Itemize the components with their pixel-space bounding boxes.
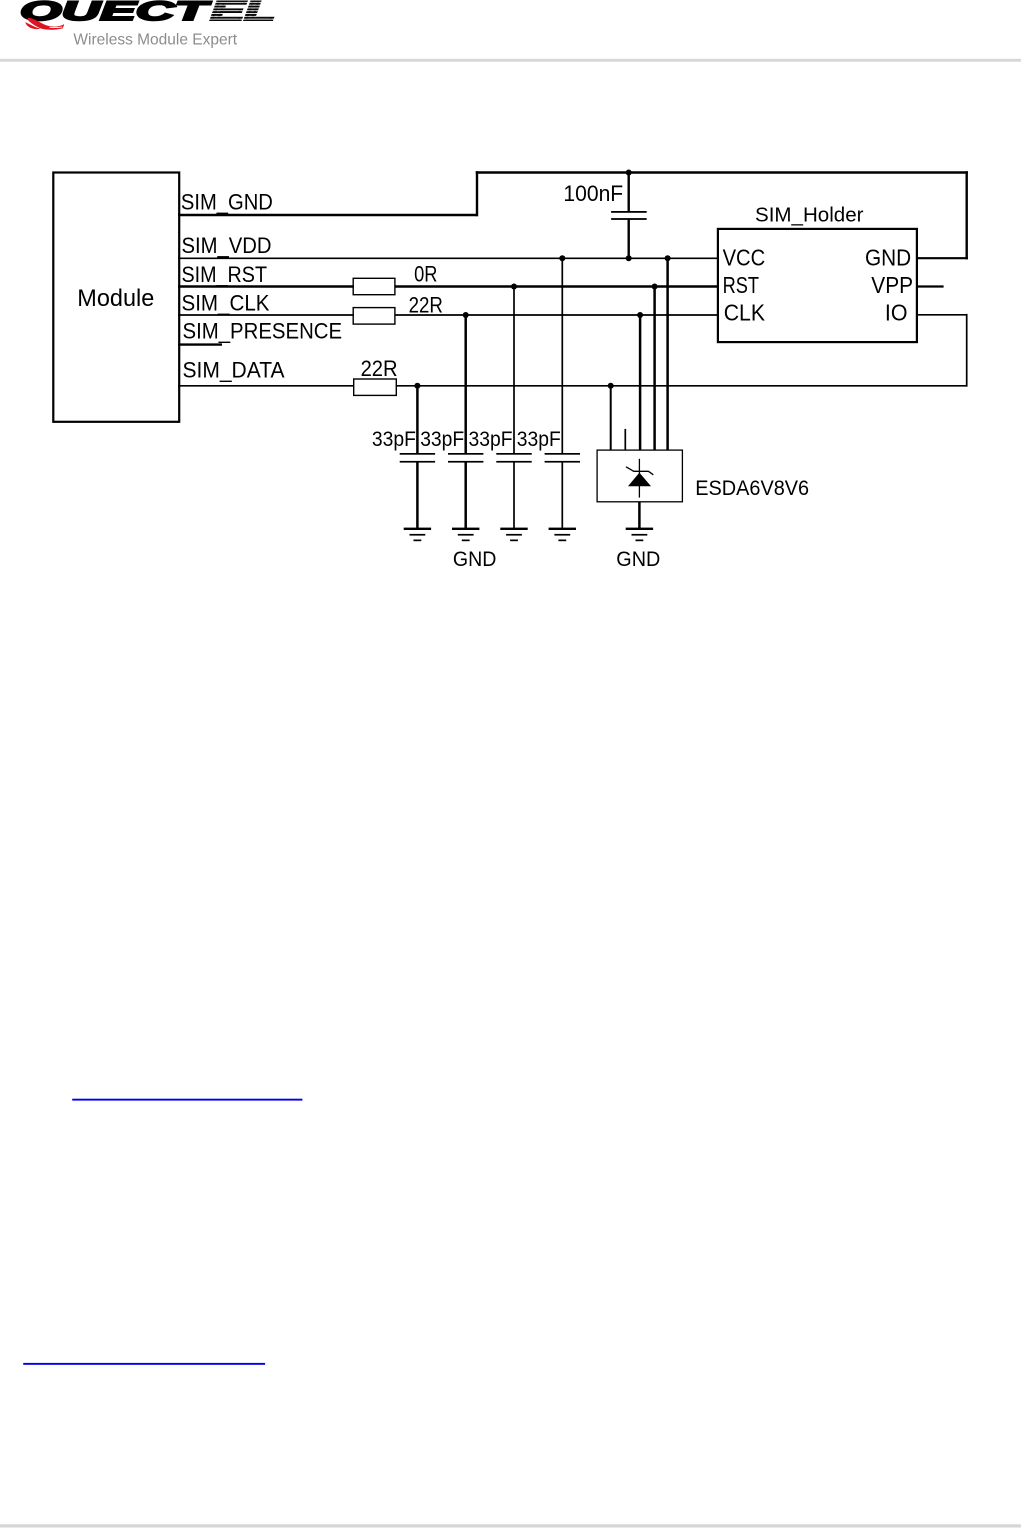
svg-text:ESDA6V8V6: ESDA6V8V6 (695, 477, 809, 500)
svg-text:SIM_PRESENCE: SIM_PRESENCE (183, 319, 343, 344)
svg-text:Module: Module (77, 285, 154, 312)
svg-text:GND: GND (616, 548, 660, 571)
svg-text:Wireless Module Expert: Wireless Module Expert (73, 31, 237, 48)
svg-text:33pF: 33pF (517, 428, 561, 451)
svg-text:GND: GND (865, 245, 911, 271)
svg-text:SIM_GND: SIM_GND (181, 190, 273, 215)
svg-text:SIM_Holder: SIM_Holder (755, 205, 864, 227)
svg-text:OUECT: OUECT (20, 0, 213, 26)
svg-text:EL: EL (211, 0, 276, 26)
svg-text:IO: IO (885, 300, 908, 326)
svg-text:22R: 22R (409, 293, 443, 318)
svg-text:GND: GND (453, 548, 497, 571)
svg-text:SIM_CLK: SIM_CLK (182, 291, 270, 316)
svg-text:33pF: 33pF (469, 428, 513, 451)
svg-text:VPP: VPP (871, 272, 913, 298)
svg-text:22R: 22R (361, 356, 398, 381)
svg-text:100nF: 100nF (563, 181, 623, 206)
svg-text:SIM_RST: SIM_RST (182, 262, 268, 287)
svg-text:SIM_DATA: SIM_DATA (183, 358, 285, 383)
svg-text:33pF: 33pF (372, 428, 416, 451)
svg-text:0R: 0R (414, 262, 437, 287)
svg-text:CLK: CLK (724, 300, 766, 326)
svg-text:VCC: VCC (723, 245, 766, 271)
svg-text:SIM_VDD: SIM_VDD (182, 233, 272, 258)
svg-text:33pF: 33pF (420, 428, 464, 451)
svg-text:RST: RST (723, 272, 759, 298)
